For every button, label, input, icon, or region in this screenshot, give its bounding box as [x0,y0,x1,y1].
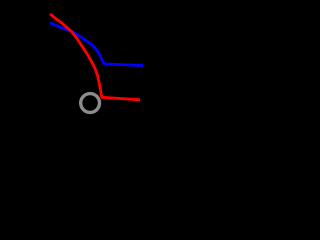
gray circle body [81,94,100,113]
red trajectory curve [50,14,140,100]
blue trajectory curve [50,23,143,66]
